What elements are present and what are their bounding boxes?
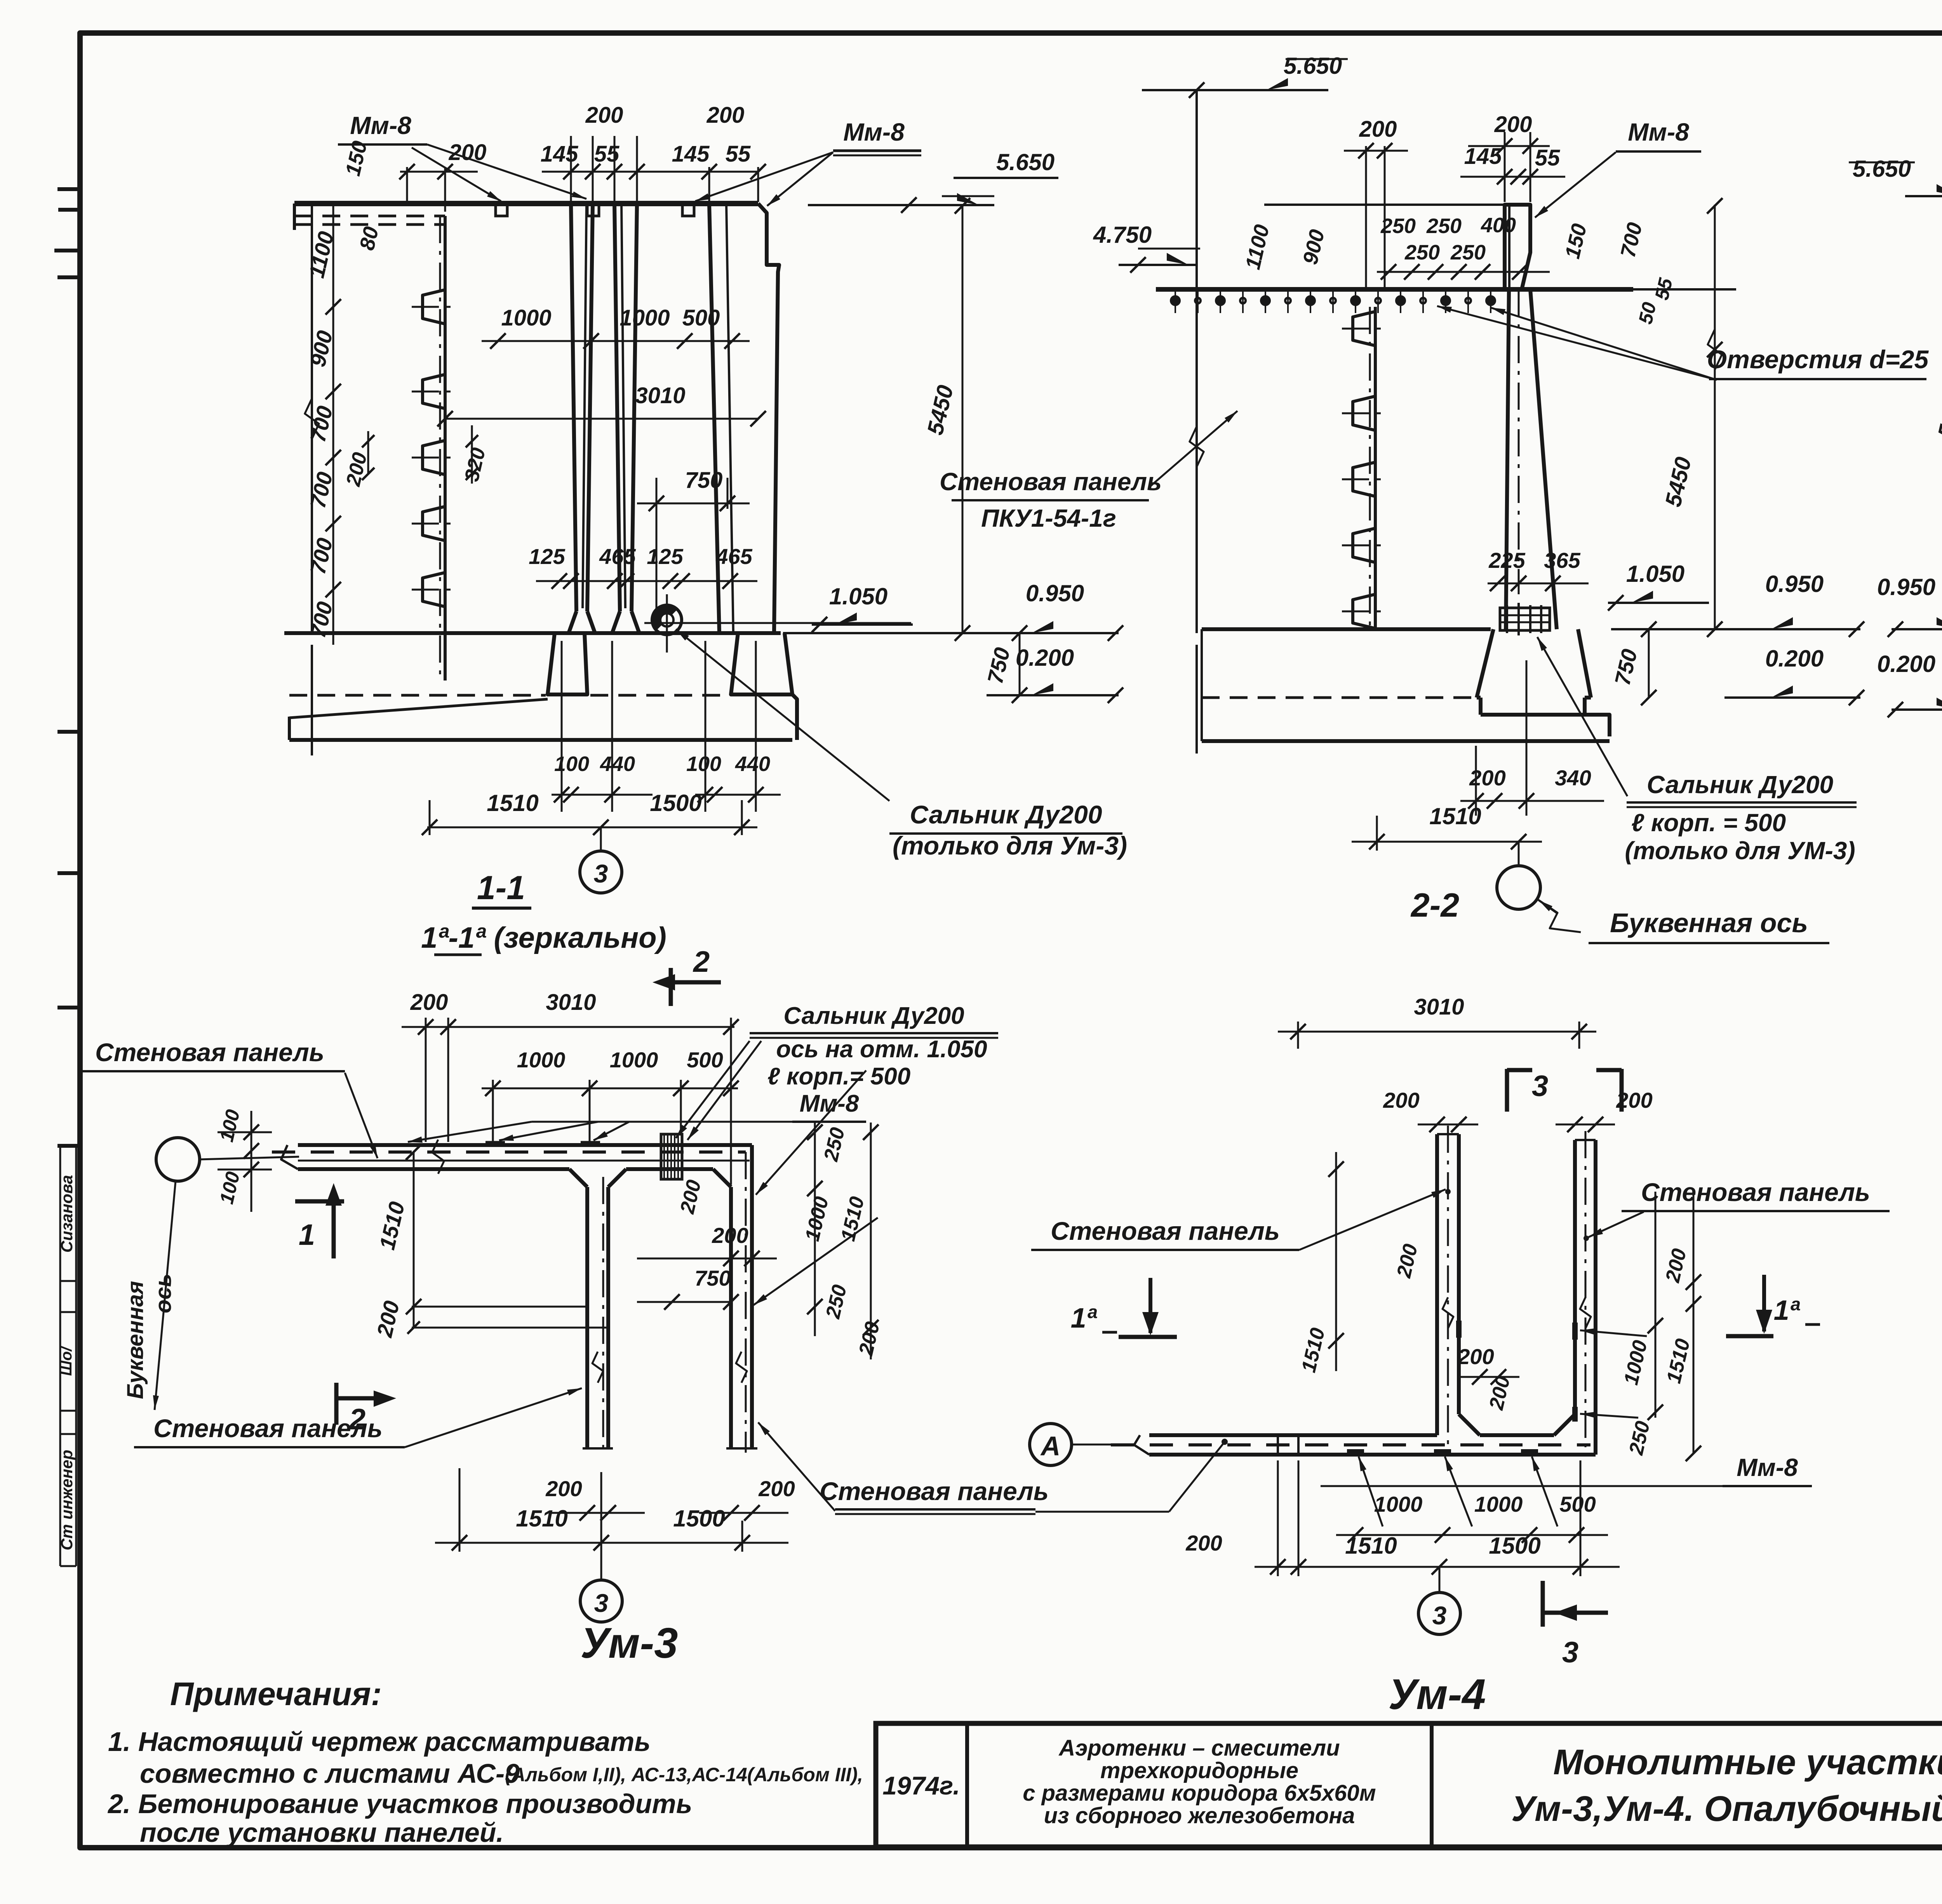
section 1-1 panel teeth	[423, 290, 445, 324]
svg-text:5.650: 5.650	[996, 149, 1055, 175]
section 1-1 teeth center dashlines	[412, 306, 458, 308]
svg-text:125: 125	[529, 544, 565, 569]
svg-text:365: 365	[1544, 548, 1580, 573]
svg-text:200: 200	[1494, 112, 1532, 137]
svg-text:145: 145	[1464, 144, 1502, 169]
svg-text:250: 250	[1450, 241, 1486, 264]
svg-text:200: 200	[1469, 766, 1505, 790]
svg-text:1ª: 1ª	[1774, 1295, 1801, 1326]
svg-text:125: 125	[647, 544, 683, 569]
section mark 1	[295, 1199, 344, 1204]
svg-text:1: 1	[299, 1218, 315, 1251]
svg-text:из сборного железобетона: из сборного железобетона	[1044, 1803, 1355, 1828]
svg-text:750: 750	[694, 1266, 731, 1290]
svg-text:3: 3	[1562, 1636, 1578, 1669]
svg-text:1500: 1500	[650, 790, 701, 816]
svg-text:0.950: 0.950	[1877, 574, 1935, 600]
plan Um-3 embed marks	[486, 1141, 505, 1146]
svg-text:1510: 1510	[516, 1505, 567, 1532]
plan Um-3 leg break marks	[592, 1352, 603, 1383]
left border tick marks	[57, 187, 82, 191]
section 2-2 gland assembly	[1500, 608, 1550, 630]
svg-text:1. Настоящий чертеж рассматр: 1. Настоящий чертеж рассматривать	[108, 1726, 651, 1757]
section 1-1 top dim extension lines	[406, 167, 408, 202]
svg-text:Буквенная ось: Буквенная ось	[1610, 908, 1808, 938]
svg-text:0.200: 0.200	[1016, 645, 1074, 671]
svg-text:200: 200	[1383, 1088, 1419, 1112]
section 1-1 foundation dashed level	[289, 694, 546, 697]
svg-text:Мм-8: Мм-8	[350, 111, 411, 139]
svg-text:250: 250	[1404, 241, 1440, 264]
plan Um-4 bottom wall axis dashed	[1111, 1443, 1590, 1446]
svg-text:400: 400	[1481, 214, 1516, 237]
svg-text:1-1: 1-1	[477, 869, 525, 907]
section 2-2 dashed level	[1202, 696, 1472, 699]
plan Um-3 band break mark	[432, 1140, 444, 1174]
svg-text:200: 200	[1457, 1344, 1494, 1369]
svg-text:200: 200	[758, 1476, 795, 1501]
leader from salnik text to gland	[1537, 637, 1627, 796]
svg-text:1510: 1510	[1345, 1533, 1397, 1559]
svg-text:Стеновая панель: Стеновая панель	[95, 1038, 324, 1067]
section mark 3 bottom	[1541, 1581, 1545, 1627]
svg-text:55: 55	[594, 141, 619, 167]
svg-text:200: 200	[1359, 117, 1397, 142]
svg-text:ось: ось	[151, 1274, 176, 1313]
svg-text:Ум-4: Ум-4	[1389, 1671, 1486, 1718]
section 2-2 main floor chord	[1156, 287, 1633, 292]
leaders from salnik label to embeds	[676, 1041, 750, 1138]
svg-text:после установки панелей.: после установки панелей.	[140, 1817, 504, 1848]
svg-text:1000: 1000	[610, 1048, 658, 1072]
svg-text:1000: 1000	[619, 305, 670, 331]
svg-text:ось на отм. 1.050: ось на отм. 1.050	[776, 1036, 987, 1063]
section 2-2 left guide line	[1195, 90, 1198, 633]
plan Um-4 bottom wall bottom edge	[1149, 1453, 1596, 1457]
svg-text:(Альбом I,II), АС-13,АС-14(Аль: (Альбом I,II), АС-13,АС-14(Альбом III),	[505, 1764, 863, 1786]
svg-text:500: 500	[682, 305, 720, 331]
svg-text:5.650: 5.650	[1853, 156, 1911, 182]
plan Um-4 bottom wall top edge	[1149, 1433, 1437, 1437]
svg-text:трехкоридорные: трехкоридорные	[1100, 1758, 1298, 1783]
svg-text:Монолитные участки стен.: Монолитные участки стен.	[1553, 1742, 1942, 1782]
plan Um-3 letter axis leader arrow	[155, 1181, 176, 1410]
svg-text:3: 3	[1432, 1601, 1447, 1630]
svg-text:Шо/: Шо/	[58, 1345, 75, 1376]
section 1-1 right wall flange	[758, 204, 779, 633]
svg-text:ℓ корп.= 500: ℓ корп.= 500	[767, 1063, 910, 1090]
section 1-1 floor line	[284, 631, 781, 635]
svg-text:3: 3	[594, 1589, 609, 1617]
plan Um-4 embed marks bottom wall	[1347, 1449, 1364, 1455]
svg-text:Стеновая панель: Стеновая панель	[153, 1414, 383, 1443]
plan Um-3 wall band top edge	[298, 1143, 752, 1147]
plan Um-3 band left end	[281, 1145, 298, 1169]
elevation 5.650 right of section 1-1	[808, 204, 994, 206]
svg-text:Отверстия d=25: Отверстия d=25	[1707, 345, 1929, 374]
plan Um-3 wall band axis dashed	[272, 1150, 746, 1154]
section 1-1 wall A faces	[571, 204, 576, 611]
svg-text:1000: 1000	[1474, 1492, 1523, 1516]
svg-text:200: 200	[449, 140, 487, 165]
svg-text:500: 500	[687, 1048, 723, 1072]
plan Um-4 column circle 3	[1439, 1567, 1441, 1592]
svg-text:3: 3	[594, 859, 608, 888]
svg-text:340: 340	[1555, 766, 1591, 790]
svg-text:145: 145	[541, 141, 579, 167]
svg-text:Ум-3,Ум-4. Опалубочный чертеж: Ум-3,Ум-4. Опалубочный чертеж.	[1511, 1789, 1942, 1829]
svg-text:Аэротенки – смесители: Аэротенки – смесители	[1058, 1735, 1340, 1761]
svg-text:1ª: 1ª	[1071, 1303, 1098, 1334]
svg-text:(только для Ум-3): (только для Ум-3)	[893, 831, 1127, 860]
leader to salnik label	[676, 629, 889, 801]
svg-text:750: 750	[685, 468, 723, 493]
section 2-2 top thin line	[1264, 204, 1505, 206]
plan Um-3 axis line to wall	[200, 1157, 299, 1159]
svg-text:2-2: 2-2	[1410, 887, 1459, 924]
section mark 2 bottom	[334, 1383, 339, 1425]
stamp column box	[59, 1147, 61, 1566]
svg-text:1500: 1500	[673, 1505, 725, 1532]
svg-text:0.200: 0.200	[1877, 651, 1935, 677]
elevation 5.650 section 2-2	[1142, 89, 1328, 91]
section 2-2 panel teeth	[1353, 312, 1375, 346]
svg-text:0.950: 0.950	[1765, 571, 1824, 597]
elevation 5.650 section 3-3	[1905, 195, 1942, 197]
svg-text:2. Бетонирование участков пр: 2. Бетонирование участков производить	[107, 1789, 692, 1819]
title block outer box	[876, 1723, 1942, 1847]
svg-text:3010: 3010	[1414, 994, 1464, 1020]
plan Um-3 axis circle	[156, 1138, 200, 1181]
svg-text:55: 55	[1535, 145, 1560, 171]
svg-text:1.050: 1.050	[1626, 561, 1684, 587]
svg-text:(только для УМ-3): (только для УМ-3)	[1625, 837, 1855, 865]
svg-text:1510: 1510	[487, 790, 538, 816]
section 1-1 left guide line	[311, 204, 313, 633]
svg-text:100: 100	[686, 752, 721, 776]
leaders from right Mm-8 label	[695, 152, 833, 201]
section 2-2 wall axis	[1518, 289, 1520, 594]
svg-text:Мм-8: Мм-8	[843, 118, 905, 146]
svg-text:с размерами коридора 6х5х60м: с размерами коридора 6х5х60м	[1023, 1780, 1376, 1806]
section 2-2 rivet dots row	[1171, 296, 1180, 305]
section 2-2 foundation pier	[1477, 629, 1493, 698]
section 1-1 embed plates Mm-8	[496, 204, 507, 216]
svg-text:3: 3	[1532, 1070, 1548, 1103]
section 1-1 foundation pier right	[731, 633, 792, 694]
svg-text:Стеновая панель: Стеновая панель	[940, 468, 1162, 496]
svg-text:0.200: 0.200	[1765, 646, 1824, 672]
svg-text:Стеновая панель: Стеновая панель	[1051, 1217, 1280, 1245]
plan Um-4 junction chamfers	[1459, 1414, 1480, 1435]
section 2-2 floor top line	[1202, 627, 1491, 631]
svg-text:А: А	[1040, 1431, 1061, 1461]
svg-text:200: 200	[1185, 1531, 1222, 1555]
plan Um-4 right wall	[1573, 1140, 1577, 1414]
svg-text:1974г.: 1974г.	[882, 1771, 960, 1800]
svg-text:совместно с листами АС-9: совместно с листами АС-9	[140, 1758, 520, 1789]
svg-text:200: 200	[585, 103, 623, 128]
section 1-1 panel top hidden edges	[293, 204, 296, 230]
section 2-2 raised wall top	[1505, 205, 1530, 289]
svg-text:ℓ корп. = 500: ℓ корп. = 500	[1631, 809, 1786, 837]
svg-text:465: 465	[715, 544, 752, 569]
svg-text:200: 200	[410, 990, 448, 1015]
svg-text:Стеновая панель: Стеновая панель	[1641, 1178, 1870, 1206]
plan Um-4 axis circle A	[1030, 1424, 1072, 1465]
svg-text:55: 55	[726, 141, 751, 167]
plan Um-3 wall band bottom edge	[298, 1167, 569, 1171]
section 1-1 wall panel axis dashed	[439, 216, 441, 680]
svg-text:200: 200	[712, 1223, 748, 1248]
title block dividers	[965, 1723, 969, 1847]
svg-text:200: 200	[706, 103, 745, 128]
svg-text:Ст инженер: Ст инженер	[57, 1450, 76, 1550]
svg-text:200: 200	[545, 1476, 582, 1501]
plan Um-4 joint lines in band	[1277, 1435, 1279, 1455]
svg-text:1510: 1510	[1429, 803, 1481, 829]
section 1-1 wall B faces	[614, 204, 620, 611]
svg-text:1000: 1000	[517, 1048, 566, 1072]
section 1-1 right wall inner faces	[709, 204, 719, 633]
plan Um-3 right leg walls	[750, 1145, 754, 1448]
svg-text:Примечания:: Примечания:	[170, 1676, 382, 1712]
section 1-1 left dim column line	[332, 204, 334, 645]
section 2-2 foundation slab	[1202, 739, 1610, 743]
svg-text:250: 250	[1426, 214, 1462, 238]
section mark 2 top	[669, 968, 673, 1006]
svg-text:440: 440	[735, 752, 770, 776]
svg-text:1ª-1ª (зеркально): 1ª-1ª (зеркально)	[421, 921, 666, 954]
section 1-1 wall panel edge	[444, 216, 447, 680]
svg-text:250: 250	[1380, 214, 1416, 238]
svg-text:Мм-8: Мм-8	[1737, 1453, 1798, 1481]
svg-text:Сальник Ду200: Сальник Ду200	[783, 1002, 964, 1029]
svg-text:225: 225	[1488, 548, 1525, 573]
svg-text:5.650: 5.650	[1284, 53, 1342, 79]
svg-text:1000: 1000	[1374, 1492, 1423, 1516]
svg-text:100: 100	[554, 752, 589, 776]
svg-text:0.950: 0.950	[1026, 580, 1084, 606]
svg-text:1.050: 1.050	[829, 583, 887, 609]
section 1-1 pipe axis line	[644, 622, 911, 624]
leader to letter axis label	[1537, 899, 1581, 932]
plan Um-4 left wall	[1435, 1134, 1439, 1435]
svg-text:Буквенная: Буквенная	[123, 1281, 148, 1399]
svg-text:440: 440	[600, 752, 635, 776]
section 1-1 gland circle (salnik)	[652, 605, 682, 635]
svg-text:3010: 3010	[635, 383, 685, 408]
svg-text:Мм-8: Мм-8	[1628, 118, 1689, 146]
svg-text:Стеновая панель: Стеновая панель	[820, 1477, 1049, 1505]
section 1-1 foundation pier A	[548, 633, 587, 694]
plan Um-3 wall band thin line	[298, 1160, 750, 1162]
svg-text:ПКУ1-54-1г: ПКУ1-54-1г	[981, 504, 1116, 532]
plan Um-4 band left end	[1134, 1435, 1149, 1455]
svg-text:Сизанова: Сизанова	[57, 1175, 76, 1253]
svg-text:2: 2	[693, 945, 710, 978]
svg-text:4.750: 4.750	[1093, 222, 1152, 248]
plan Um-4 embed marks walls	[1456, 1321, 1462, 1338]
svg-text:1000: 1000	[501, 305, 551, 331]
leaders from Mm-8 label to plates	[412, 148, 501, 201]
section mark 3 top pair	[1505, 1069, 1509, 1112]
plan Um-4 wall break marks	[1443, 1297, 1453, 1328]
plan Um-3 T-leg walls	[585, 1187, 589, 1448]
section 1-1 foundation slab	[289, 738, 792, 742]
section 1-1 joint inner lines	[583, 204, 586, 608]
section 1-1 column mark circle 3	[600, 827, 602, 851]
plan Um-3 gland assembly hatch	[661, 1134, 682, 1179]
plan Um-3 column circle 3	[600, 1543, 602, 1580]
section 1-1 top dimension line	[400, 171, 478, 173]
svg-text:1500: 1500	[1489, 1533, 1540, 1559]
section 2-2 panel hidden edge	[1374, 307, 1377, 629]
svg-text:Сальник Ду200: Сальник Ду200	[1647, 771, 1833, 799]
svg-text:500: 500	[1559, 1492, 1596, 1516]
svg-text:465: 465	[599, 544, 636, 569]
svg-text:3010: 3010	[546, 990, 596, 1015]
section 1-1 top chord	[294, 201, 758, 206]
section 2-2 wall faces	[1506, 289, 1509, 629]
section 2-2 axis to letter circle	[1518, 842, 1520, 865]
svg-text:145: 145	[672, 141, 710, 167]
svg-text:Ум-3: Ум-3	[581, 1619, 678, 1667]
svg-text:Сальник Ду200: Сальник Ду200	[910, 800, 1102, 829]
